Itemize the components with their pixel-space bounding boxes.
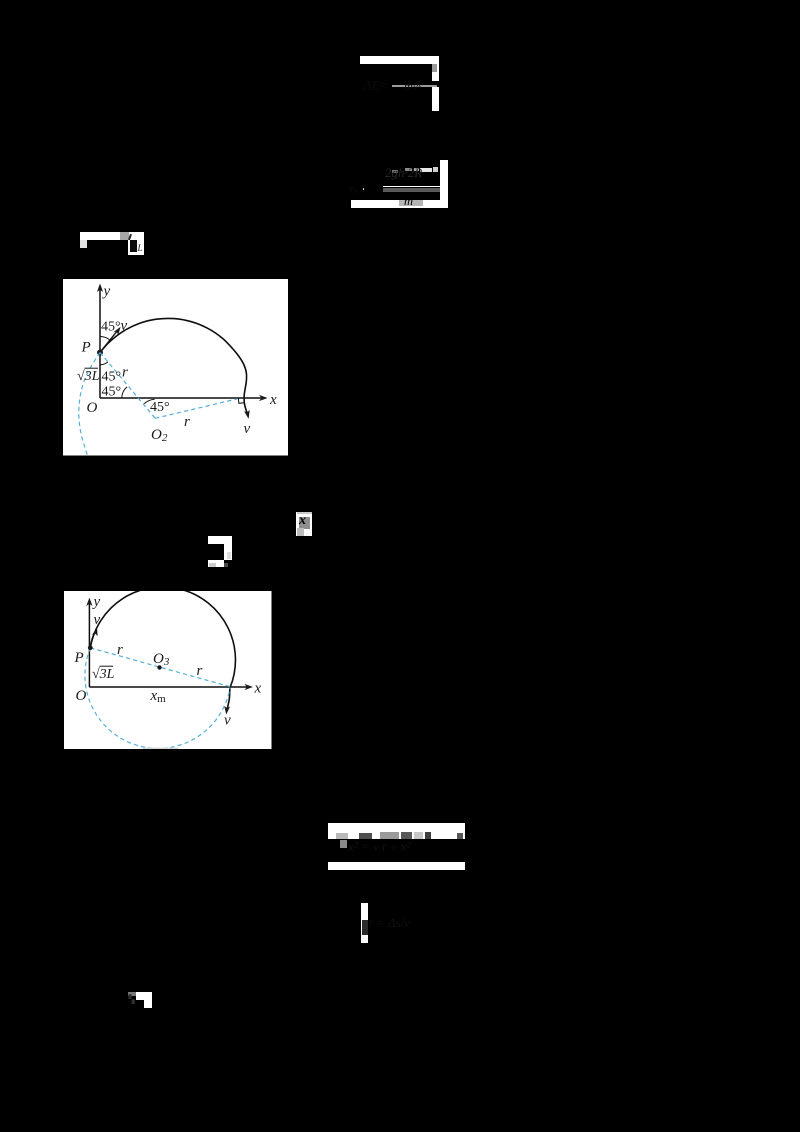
x-axis d1 — [100, 395, 268, 401]
eq4 mid-band light mark — [340, 840, 348, 847]
Lpatch dark diagonal mark — [129, 995, 136, 1000]
eq3 right white patch — [128, 240, 144, 255]
eq4 top white bar — [328, 823, 465, 839]
x-patch gray glyph square — [299, 517, 311, 529]
svg-text:y: y — [102, 284, 111, 300]
eq4 bottom white bar — [328, 862, 465, 870]
trajectory arrowhead v d1 — [244, 410, 250, 419]
frag bottom white bar — [208, 560, 224, 568]
eq3 dark glyphs — [130, 240, 137, 252]
svg-text:O: O — [87, 400, 98, 416]
svg-text:r: r — [117, 642, 123, 658]
dashed circle arc lower d2 — [85, 648, 230, 749]
point P dot d1 — [97, 350, 103, 356]
svg-text:x: x — [253, 680, 261, 696]
bottom gray strip d2 — [143, 748, 178, 750]
trajectory solid arc d1 — [100, 318, 247, 412]
eq1 black notch in column — [432, 81, 439, 88]
svg-text:45°: 45° — [102, 370, 122, 385]
eq2 gray patch around m — [399, 200, 423, 206]
eq2 numerator gray speckle B — [414, 168, 419, 172]
frag right white column — [224, 544, 232, 560]
eq1 right white column — [432, 64, 439, 111]
svg-text:r: r — [184, 414, 190, 430]
eq1 gray fraction line — [392, 85, 437, 87]
velocity arrow at P d2 — [90, 628, 97, 647]
label sqrt3L d1 — [77, 368, 100, 384]
dashed radius P to O2 d1 — [100, 353, 155, 419]
Lpatch gray block — [128, 992, 136, 996]
svg-text:P: P — [74, 650, 84, 666]
Lpatch white top — [136, 992, 153, 1000]
svg-text:45°: 45° — [102, 385, 122, 400]
eq2 gray bar under fraction line — [383, 188, 440, 192]
svg-text:v: v — [244, 421, 251, 437]
dashed circle arc bottom-left d1 — [79, 353, 100, 456]
diagram2 white background — [64, 591, 271, 749]
eq1 gray top of column — [432, 64, 437, 72]
svg-text:r: r — [122, 365, 128, 381]
eq3 gray patch over bar — [120, 232, 129, 240]
Lpatch white bottom — [144, 1000, 152, 1008]
svg-text:y: y — [92, 594, 101, 610]
svg-text:v: v — [94, 612, 101, 628]
diagram1 white background — [63, 279, 288, 456]
y-axis d2 — [86, 598, 92, 687]
svg-text:45°: 45° — [101, 320, 121, 335]
eq3 top white bar — [80, 232, 144, 240]
eq2 numerator white glyph patch A — [420, 168, 432, 172]
eq5 faint glyphs right — [369, 915, 429, 931]
angle arc at axis crossing d1 — [122, 387, 127, 398]
svg-text:r: r — [196, 663, 202, 679]
eq2 numerator gray speckle C — [392, 170, 398, 173]
eq2 white fraction line — [383, 186, 440, 188]
eq2 right white column — [440, 160, 448, 209]
dashed radius O2 to R d1 — [155, 399, 237, 419]
eq4 glyph-top grays — [336, 833, 349, 839]
y-axis d1 — [97, 284, 103, 399]
center O3 dot d2 — [157, 665, 161, 669]
eq5 white vertical bar — [361, 903, 368, 943]
DIAGRAM 2 — [64, 591, 272, 749]
x-axis d2 — [89, 684, 252, 690]
angle arc below P d1 — [100, 362, 108, 365]
eq5 dark glyph on bar — [362, 920, 368, 936]
DIAGRAM 1 — [63, 279, 288, 456]
svg-text:√3L: √3L — [77, 369, 100, 384]
eq2 black m glyph — [404, 194, 420, 206]
eq1 faint rhs glyphs — [404, 79, 434, 92]
x-patch white rect — [296, 512, 312, 536]
dashed diameter P to R d2 — [90, 648, 230, 687]
x-patch black x glyph — [299, 513, 311, 528]
frag bottom light gray — [209, 563, 216, 567]
angle arc at P top d1 — [100, 337, 110, 341]
svg-text:P: P — [81, 340, 91, 356]
eq2 numerator gray speckle A — [405, 168, 412, 171]
eq4 faint band glyphs — [348, 839, 463, 855]
svg-text:v: v — [121, 318, 128, 334]
arrowhead v d2 — [224, 706, 230, 714]
frag dark gray square — [224, 563, 228, 568]
x-patch top gray strip — [297, 512, 312, 514]
eq2 numerator faint glyphs — [385, 165, 440, 185]
frag top white bar — [208, 536, 232, 544]
eq2 bottom white bar — [351, 200, 440, 208]
angle arc at O2 d1 — [144, 399, 154, 404]
svg-text:v: v — [224, 712, 231, 728]
svg-text:x: x — [269, 392, 277, 408]
label sqrt3L d2 — [92, 666, 115, 682]
eq2 white dot — [363, 188, 365, 190]
eq2 numerator white glyph patch B — [433, 167, 438, 172]
svg-text:45°: 45° — [150, 400, 170, 415]
velocity arrow at P d1 — [100, 327, 121, 353]
svg-text:O: O — [76, 688, 87, 704]
point P dot d2 — [88, 645, 93, 650]
eq2 lhs faint glyphs — [349, 182, 381, 193]
x-patch bottom-left gray — [297, 528, 304, 536]
frag light gray in column — [227, 552, 231, 560]
eq3 light gray left — [80, 240, 87, 248]
svg-text:√3L: √3L — [92, 667, 115, 682]
right angle mark d1 — [238, 398, 244, 403]
eq1 faint delta-E glyphs — [363, 79, 389, 94]
solid circle arc d2 — [90, 587, 235, 709]
eq1 top white bar — [360, 56, 439, 64]
